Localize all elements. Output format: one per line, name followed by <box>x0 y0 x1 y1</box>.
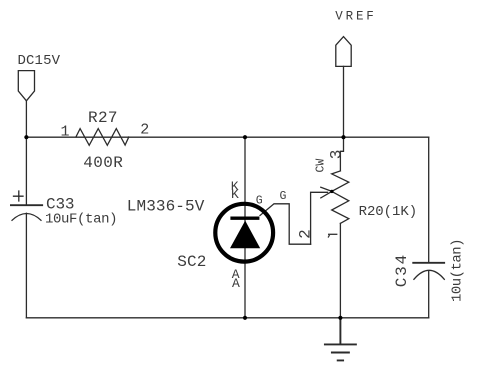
svg-text:R20(1K): R20(1K) <box>359 204 418 220</box>
potentiometer R20 wiper arrow <box>311 187 332 244</box>
wire gate G from SC2 to wiper <box>260 204 311 244</box>
svg-text:3: 3 <box>328 150 346 160</box>
svg-text:400R: 400R <box>83 154 123 172</box>
capacitor C33 plus sign <box>14 191 24 201</box>
svg-text:2: 2 <box>140 121 149 138</box>
capacitor C34 plate <box>413 262 444 264</box>
connector VREF <box>336 37 351 67</box>
wire right vertical <box>428 137 430 318</box>
wire bottom horizontal <box>26 317 428 319</box>
svg-text:G: G <box>256 194 263 207</box>
resistor R27 body <box>76 129 129 146</box>
wire pot top lead with jog <box>340 137 343 171</box>
svg-text:VREF: VREF <box>335 10 374 24</box>
junction dot left-top <box>24 135 28 139</box>
svg-text:LM336-5V: LM336-5V <box>127 197 205 215</box>
svg-text:CW: CW <box>315 159 328 173</box>
wire VREF stem <box>343 66 345 137</box>
svg-text:10u(tan): 10u(tan) <box>449 239 465 303</box>
potentiometer R20 body <box>332 171 349 224</box>
svg-text:R27: R27 <box>88 109 118 127</box>
label pot pin 1 (rotated) <box>328 234 337 237</box>
wire left vertical DC15V rail <box>25 101 27 318</box>
diode SC2 cathode bar <box>230 217 259 220</box>
junction dot diode-bottom <box>243 316 247 320</box>
junction dot wiper vertex <box>330 190 333 193</box>
wire pot bottom lead <box>339 223 341 317</box>
svg-text:SC2: SC2 <box>177 253 206 271</box>
svg-text:K: K <box>231 187 239 202</box>
svg-text:A: A <box>232 276 240 291</box>
ground <box>325 318 356 361</box>
connector DC15V <box>18 71 34 101</box>
svg-text:C34: C34 <box>393 255 411 288</box>
svg-text:G: G <box>280 190 287 203</box>
junction dot ground <box>338 316 342 320</box>
capacitor C33 curved plate <box>12 214 41 221</box>
svg-text:10uF(tan): 10uF(tan) <box>45 211 118 227</box>
svg-text:1: 1 <box>61 123 70 140</box>
wire top horizontal <box>26 136 428 138</box>
svg-text:DC15V: DC15V <box>18 53 61 69</box>
diode SC2 circle <box>215 204 273 262</box>
junction dot diode-top <box>243 135 247 139</box>
capacitor C33 plate <box>11 204 42 206</box>
svg-text:2: 2 <box>297 229 315 239</box>
capacitor C34 curved plate <box>414 270 444 279</box>
junction dot vref <box>341 135 345 139</box>
wire diode branch vertical <box>244 137 246 318</box>
diode SC2 triangle <box>230 221 260 249</box>
